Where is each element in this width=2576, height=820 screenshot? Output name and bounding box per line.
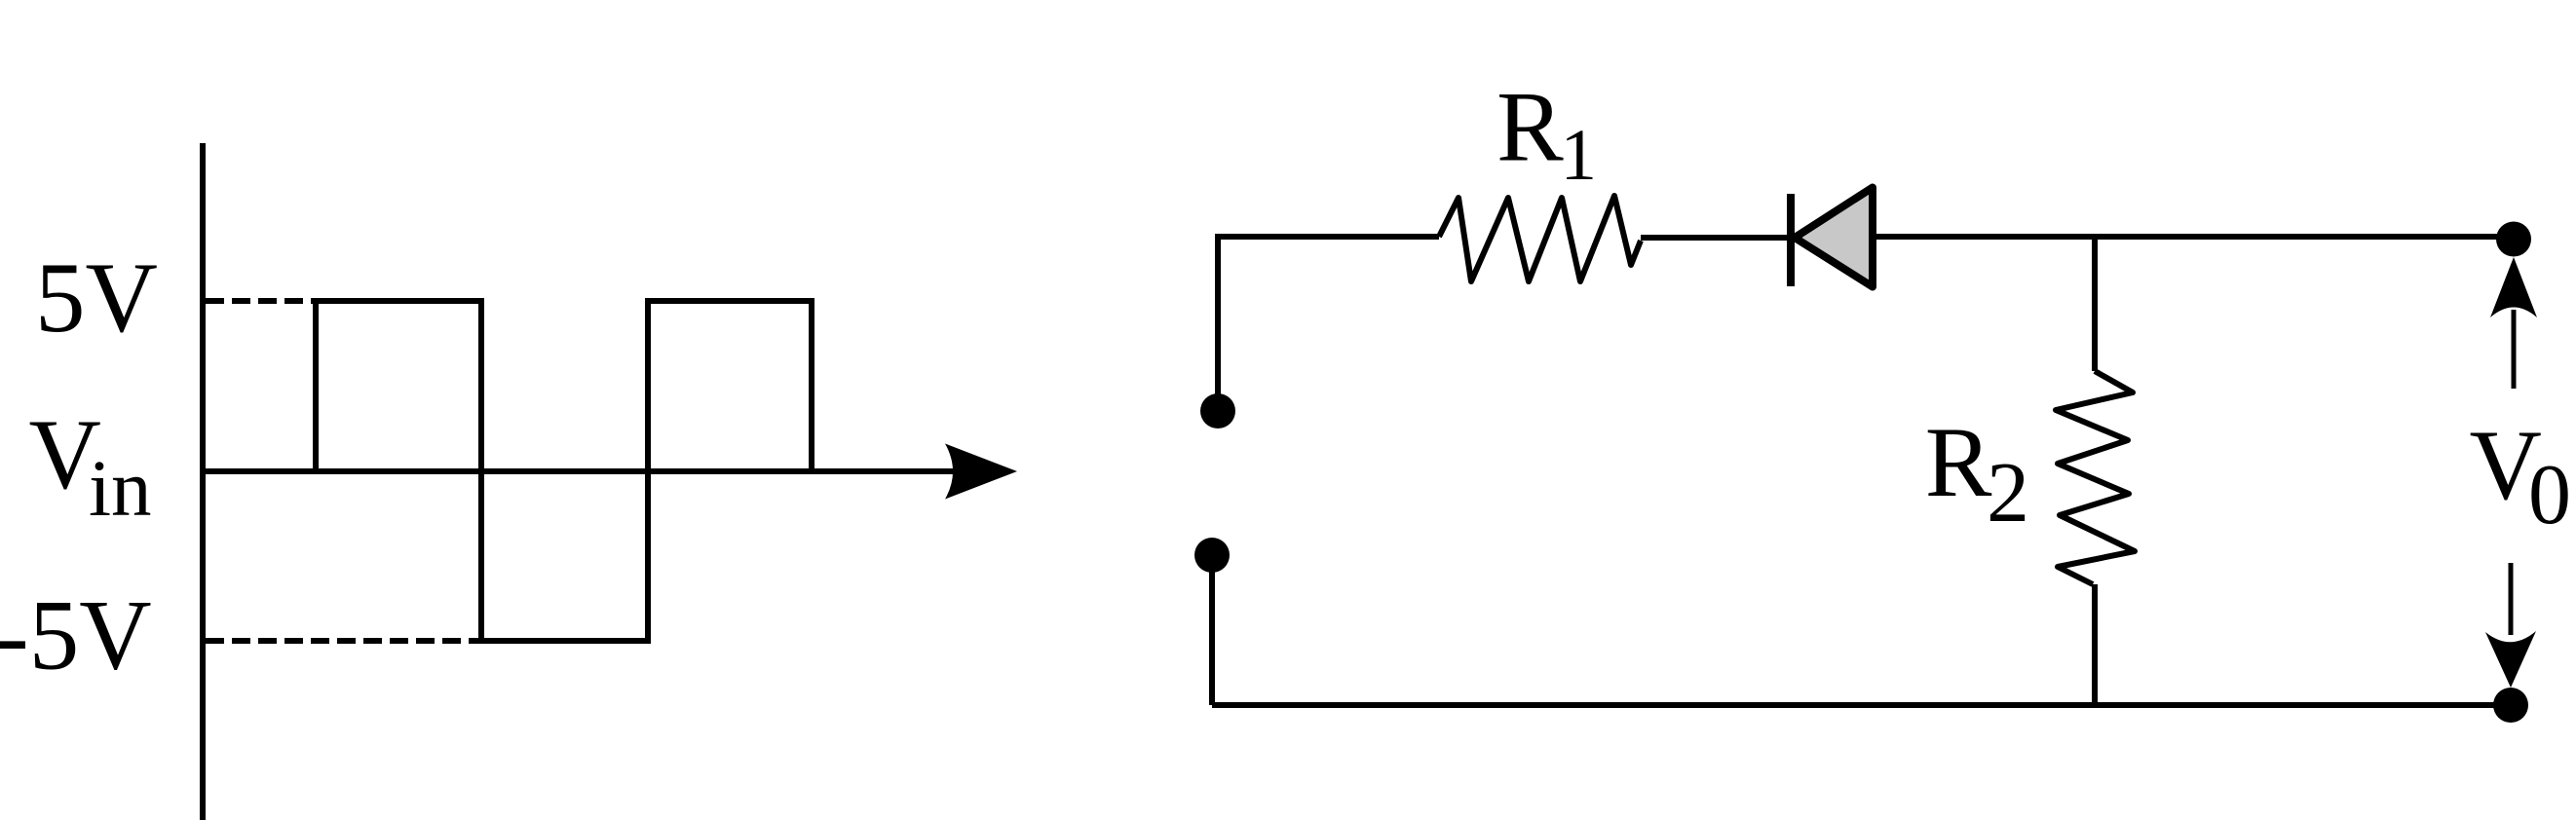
input terminal lower node — [1194, 538, 1230, 573]
axis arrowhead — [945, 444, 1017, 500]
wire resistor to diode — [1641, 235, 1791, 241]
diode D1 cathode bar — [1787, 194, 1795, 286]
wire diode to output node — [1873, 234, 2514, 240]
V0 up arrowhead — [2490, 257, 2537, 317]
input terminal upper node — [1200, 393, 1235, 429]
dashed 5V level line — [206, 298, 316, 304]
diode D1 triangle — [1795, 188, 1873, 287]
svg-text:5V: 5V — [35, 242, 158, 354]
wire top-left horizontal — [1218, 234, 1439, 240]
V0 down arrowhead — [2485, 631, 2536, 688]
waveform horizontal axis (time axis) — [200, 468, 955, 474]
svg-text:-5V: -5V — [0, 580, 152, 691]
V0 down arrow shaft — [2509, 563, 2514, 635]
svg-text:R: R — [1925, 407, 1992, 518]
wire left rail lower — [1209, 555, 1215, 705]
wire R2 top lead — [2092, 234, 2098, 371]
output node top-right — [2496, 222, 2531, 257]
dashed -5V level line — [206, 638, 481, 644]
resistor R2 — [2056, 371, 2135, 584]
output node bottom-right — [2493, 688, 2528, 723]
V0 up arrow shaft — [2512, 310, 2517, 389]
svg-text:0: 0 — [2528, 448, 2571, 542]
svg-text:in: in — [89, 443, 152, 533]
wire left rail upper — [1215, 234, 1221, 411]
wire R2 bottom lead — [2092, 584, 2098, 705]
bottom wire — [1212, 702, 2512, 708]
svg-text:R: R — [1496, 72, 1564, 183]
resistor R1 — [1439, 196, 1641, 281]
square wave Vin — [316, 301, 812, 641]
waveform vertical axis — [200, 143, 206, 820]
svg-text:1: 1 — [1561, 115, 1598, 196]
svg-text:2: 2 — [1987, 446, 2029, 540]
